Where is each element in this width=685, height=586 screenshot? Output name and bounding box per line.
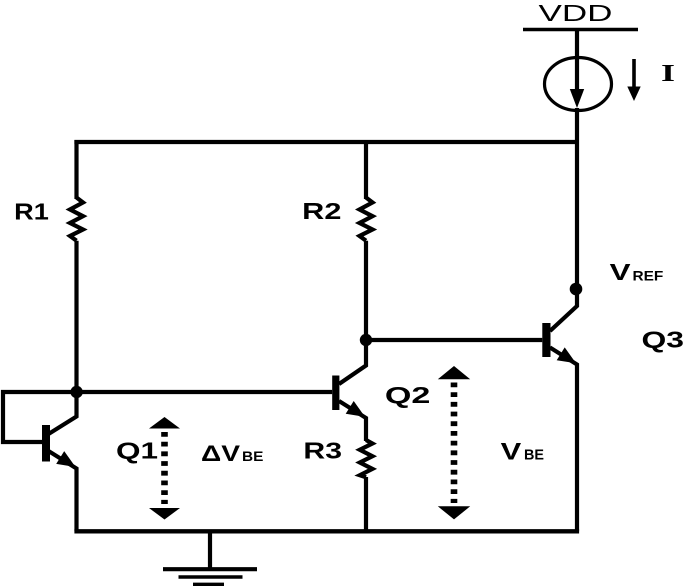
- measure arrow dVBE top head: [149, 417, 180, 429]
- wire node B to Q3 base: [366, 338, 542, 342]
- wire R1 to node A: [74, 241, 78, 392]
- svg-text:REF: REF: [633, 267, 664, 283]
- wire Q1 feedback loop left: [3, 392, 77, 442]
- transistor Q2 emitter: [339, 401, 366, 441]
- measure arrow VBE dashed shaft: [451, 383, 458, 504]
- transistor Q3 emitter: [550, 348, 577, 532]
- node A junction dot: [70, 386, 82, 398]
- svg-text:R3: R3: [303, 437, 342, 463]
- ground bar 3: [193, 583, 224, 586]
- measure arrow dVBE dashed shaft: [161, 432, 168, 504]
- svg-text:BE: BE: [524, 448, 544, 464]
- node B junction dot: [360, 334, 372, 346]
- svg-text:Q1: Q1: [116, 438, 158, 464]
- svg-text:Q3: Q3: [642, 327, 685, 353]
- transistor Q2 base bar: [332, 376, 339, 411]
- resistor R1: [70, 198, 83, 241]
- ground bar 2: [179, 575, 243, 579]
- ground stem: [208, 531, 212, 569]
- svg-text:BE: BE: [242, 449, 263, 464]
- transistor Q1 emitter: [49, 451, 77, 531]
- current source U1 arrow shaft: [575, 30, 579, 93]
- wire node A to Q2 base: [77, 390, 333, 394]
- resistor R3: [360, 440, 373, 477]
- svg-text:V: V: [610, 259, 632, 285]
- transistor Q3 collector: [550, 290, 577, 331]
- transistor Q1 emitter arrowhead: [56, 451, 75, 467]
- svg-text:VDD: VDD: [539, 0, 613, 26]
- svg-text:ΔV: ΔV: [201, 441, 240, 466]
- node VREF junction dot: [570, 283, 583, 296]
- transistor Q3 base bar: [542, 323, 550, 357]
- svg-text:V: V: [501, 438, 522, 465]
- current I indicator arrow: [632, 59, 636, 88]
- current source U1 arrowhead: [570, 89, 584, 108]
- resistor R2: [360, 198, 373, 241]
- wire current source to node VREF: [575, 108, 579, 292]
- ground bar 1: [163, 567, 257, 571]
- measure arrow dVBE bottom head: [149, 508, 180, 520]
- svg-text:Q2: Q2: [385, 382, 431, 408]
- wire bottom rail: [74, 529, 579, 533]
- wire top rail to R2: [364, 140, 368, 199]
- wire R2 to node B: [364, 241, 368, 340]
- transistor Q1 base bar: [42, 425, 50, 462]
- wire top rail to R1: [74, 140, 78, 199]
- transistor Q2 collector: [339, 340, 366, 384]
- VDD supply rail bar: [523, 28, 638, 31]
- wire R3 to bottom rail: [364, 477, 368, 531]
- current source U1 circle: [545, 58, 612, 111]
- transistor Q3 emitter arrowhead: [557, 347, 576, 363]
- svg-text:R2: R2: [302, 198, 341, 224]
- measure arrow VBE bottom head: [438, 506, 470, 519]
- svg-text:R1: R1: [14, 198, 49, 224]
- svg-text:I: I: [661, 61, 675, 87]
- measure arrow VBE top head: [438, 366, 470, 379]
- transistor Q1 collector: [49, 392, 77, 434]
- transistor Q2 emitter arrowhead: [346, 401, 365, 417]
- wire top rail: [74, 140, 577, 144]
